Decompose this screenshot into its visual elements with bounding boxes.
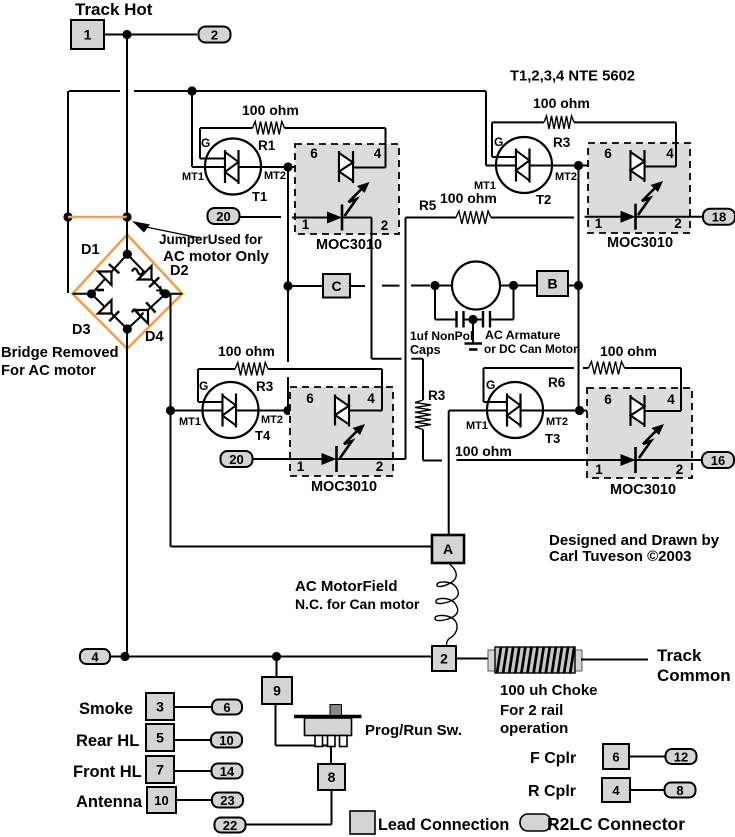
wire U2 pin1 internal [585, 216, 621, 218]
label legend R2LC [547, 814, 685, 834]
wire top rail left segment [69, 90, 120, 92]
switch prog/run [294, 705, 362, 747]
label T2 G [494, 135, 503, 149]
wire R5 left vertical [393, 218, 406, 460]
label U4 MOC3010 [610, 482, 676, 498]
wire box2 to choke [456, 658, 490, 660]
svg-text:4: 4 [367, 391, 375, 406]
wire T1 gate branch [200, 128, 225, 159]
svg-text:9: 9 [273, 683, 281, 699]
wire U3 LED to pin2 [337, 458, 394, 460]
label D1 [81, 242, 100, 258]
label motor field line2 [295, 596, 420, 612]
wire T3 MT2 to optocoupler [521, 410, 631, 412]
wire T2 gate branch [492, 122, 516, 157]
R2LC connector 4 [80, 649, 110, 665]
lead connection box 3 [146, 693, 174, 720]
wire rail to box 9 [276, 657, 278, 678]
R2LC connector 16 [702, 452, 734, 468]
label R6 [548, 375, 566, 390]
svg-text:MOC3010: MOC3010 [316, 237, 382, 253]
wire T4 MT1 branch [171, 410, 223, 412]
label motor line2 [484, 342, 578, 356]
junction T3 MT2 node [575, 406, 584, 415]
svg-text:C: C [331, 278, 341, 294]
wire MT2 vertical to T4 lower [287, 377, 289, 410]
svg-text:D2: D2 [170, 263, 189, 279]
label U2 pin 1 [595, 216, 603, 231]
junction cap center [468, 315, 477, 324]
label U3 pin 2 [376, 459, 384, 474]
label U2 MOC3010 [607, 235, 673, 251]
lead connection box 1 [71, 20, 104, 49]
junction bridge AC top [123, 250, 132, 259]
optocoupler U4 MOC3010 body [587, 388, 692, 478]
svg-text:R3: R3 [553, 135, 571, 150]
svg-text:Designed and Drawn by: Designed and Drawn by [549, 532, 720, 549]
node Track Hot label [75, 0, 153, 19]
wire choke to track common [581, 659, 648, 661]
svg-text:Antenna: Antenna [76, 793, 143, 811]
svg-text:Smoke: Smoke [79, 700, 133, 718]
svg-text:MOC3010: MOC3010 [607, 235, 673, 251]
label NTE note [510, 69, 635, 85]
svg-text:MT2: MT2 [546, 416, 568, 428]
label smoke [79, 700, 133, 718]
junction T1 MT2 node [283, 162, 292, 171]
label caps line2 [410, 343, 441, 357]
label U2 pin 4 [666, 146, 674, 161]
svg-text:1: 1 [302, 217, 310, 232]
svg-text:100 ohm: 100 ohm [455, 443, 512, 459]
label designed by line2 [549, 548, 692, 565]
label choke line1 [500, 682, 598, 699]
wire top rail right segment [134, 90, 486, 92]
label U1 pin 4 [374, 146, 382, 161]
triac T2 [496, 137, 552, 207]
resistor R3 vertical [415, 400, 431, 430]
junction T4 MT1 [166, 406, 175, 415]
svg-text:1uf NonPol: 1uf NonPol [410, 329, 473, 343]
svg-text:1: 1 [595, 462, 603, 477]
label U4 pin 1 [595, 462, 603, 477]
ground [465, 320, 483, 350]
label choke line3 [500, 720, 568, 737]
U4 pin4 wire to R6 [645, 368, 682, 411]
svg-text:Track Hot: Track Hot [75, 0, 153, 19]
label bridge minus [97, 289, 105, 292]
svg-text:100 ohm: 100 ohm [242, 102, 299, 118]
label T2 MT2 [555, 171, 577, 183]
R2LC connector 20 lower [221, 451, 253, 467]
lead connection box 2 [432, 646, 456, 671]
svg-text:10: 10 [219, 733, 233, 748]
wire bridge AC left vertical [67, 91, 69, 293]
wire switch to box 8 [330, 747, 332, 765]
svg-text:4: 4 [667, 392, 675, 407]
label U3 pin 6 [306, 391, 314, 406]
resistor R3 top 100 ohm [492, 116, 676, 129]
wire bridge plus down to T4 MT1 [170, 294, 172, 411]
label D4 [145, 329, 164, 345]
lead connection box 10 [147, 787, 176, 813]
U2 internal triac [631, 150, 645, 182]
label choke line2 [500, 702, 563, 719]
U1 LED diode [327, 205, 342, 231]
label R1 [258, 138, 276, 153]
svg-text:2: 2 [211, 28, 218, 43]
label U1 pin 2 [381, 218, 389, 233]
label 100 ohm pin1 [455, 443, 512, 459]
wire U3 pin1 internal [253, 458, 322, 460]
wire box6 to connector 12 [629, 756, 666, 758]
resistor R6 100 ohm [484, 362, 682, 375]
wire T4 MT2 to optocoupler [236, 410, 335, 412]
junction T2 MT2 node [574, 161, 583, 170]
wire T2 MT1 branch [486, 91, 516, 166]
jumper arrow [132, 221, 200, 238]
svg-text:G: G [201, 136, 210, 150]
wire R3 vertical bottom [423, 430, 442, 461]
svg-text:8: 8 [328, 769, 336, 785]
U3 internal triac [335, 395, 349, 427]
svg-text:Carl Tuveson ©2003: Carl Tuveson ©2003 [549, 548, 692, 565]
lead connection box 5 [146, 724, 174, 751]
R2LC connector 10 [211, 733, 242, 749]
svg-text:F Cplr: F Cplr [530, 750, 576, 767]
label R1 value [242, 102, 299, 118]
label bridge plus [156, 281, 166, 300]
svg-text:Common: Common [657, 666, 731, 685]
wire B to MT2 vertical [568, 285, 579, 287]
diode D4 lower-right [135, 302, 156, 323]
label U3 pin 4 [367, 391, 375, 406]
junction bridge AC bottom [123, 324, 132, 333]
junction B right [574, 281, 583, 290]
label prog/run switch [365, 722, 462, 739]
svg-text:Bridge Removed: Bridge Removed [1, 345, 119, 361]
svg-text:100 ohm: 100 ohm [218, 343, 275, 359]
wire U1 LED to pin2 [342, 218, 372, 359]
capacitor C1 nonpol [457, 311, 464, 328]
label caps line1 [410, 329, 473, 343]
junction rail switch branch [272, 652, 281, 661]
label T3 G [486, 378, 495, 392]
svg-text:2: 2 [676, 462, 684, 477]
wire U4 pin1 internal [457, 459, 621, 461]
wire between caps [464, 319, 484, 321]
wire C to motor with hops [350, 285, 430, 288]
label T1 MT2 [264, 170, 286, 182]
triac T3 [487, 382, 560, 446]
U1 internal triac [339, 151, 353, 183]
svg-text:T4: T4 [255, 428, 271, 443]
wire box9 to switch [276, 704, 332, 746]
wire box3 to connector 6 [174, 706, 212, 708]
label motor field line1 [295, 578, 398, 595]
U3 LED diode [322, 446, 337, 472]
diode D3 lower-left [98, 300, 119, 321]
R2LC connector 8 [665, 783, 696, 799]
label track common line2 [657, 666, 731, 685]
label D2 [170, 263, 189, 279]
svg-text:Track: Track [657, 646, 702, 665]
svg-text:N.C. for Can motor: N.C. for Can motor [295, 596, 420, 612]
svg-text:G: G [494, 135, 503, 149]
label U4 pin 2 [676, 462, 684, 477]
svg-text:Rear HL: Rear HL [76, 732, 139, 750]
jumper wire orange [68, 216, 127, 218]
jumper junction right [122, 212, 131, 221]
label motor line1 [485, 328, 561, 342]
junction motor right [509, 281, 518, 290]
wire U1 pin2 to R3 vertical [372, 359, 424, 400]
label R6 value [600, 343, 657, 359]
svg-text:G: G [199, 379, 208, 393]
R2LC connector 12 [666, 749, 697, 765]
resistor R3 T4 100 ohm [198, 363, 382, 376]
label U3 MOC3010 [311, 479, 377, 495]
label T4 MT2 [261, 414, 283, 426]
wire connector 20 to U1 pin1 [240, 216, 282, 218]
svg-text:4: 4 [374, 146, 382, 161]
label R5 value [440, 190, 497, 206]
svg-text:MT2: MT2 [264, 170, 286, 182]
label T4 G [199, 379, 208, 393]
lead connection box B [537, 271, 568, 296]
wire box5 to connector 10 [174, 739, 211, 741]
label jumper note line2 [163, 248, 269, 265]
U1 pin4 wire to R1 [353, 128, 386, 168]
lead connection box 6 coupler [603, 744, 629, 769]
lead connection box 7 [146, 756, 174, 783]
resistor R5 100 ohm [406, 211, 575, 224]
svg-text:20: 20 [216, 209, 230, 224]
R2LC connector 22 [215, 818, 246, 834]
wire T3 MT1 down to A [448, 411, 450, 536]
svg-text:MT1: MT1 [466, 420, 488, 432]
wire MT2 junction to C [288, 285, 323, 287]
svg-text:Front HL: Front HL [73, 763, 142, 781]
U4 LED diode [621, 447, 636, 473]
label R3 top value [533, 95, 590, 111]
svg-text:B: B [547, 276, 557, 292]
wire U2 LED to connector 18 [636, 216, 704, 218]
label bridge AC bottom tilde [132, 310, 143, 316]
lead connection box C [323, 274, 350, 298]
svg-text:MOC3010: MOC3010 [311, 479, 377, 495]
svg-text:5: 5 [156, 730, 164, 746]
label T3 MT1 [466, 420, 488, 432]
svg-text:16: 16 [711, 453, 725, 468]
label jumper note line1 [159, 232, 263, 247]
junction motor left [430, 281, 439, 290]
svg-text:20: 20 [229, 452, 243, 467]
resistor R1 100 ohm [200, 122, 386, 135]
U2 LED arrow [638, 181, 663, 215]
wire bridge right stub [166, 293, 183, 295]
label R Cplr [528, 783, 576, 800]
svg-text:MOC3010: MOC3010 [610, 482, 676, 498]
wire T2 MT2 to optocoupler [530, 165, 631, 167]
svg-text:100 uh Choke: 100 uh Choke [500, 682, 598, 699]
U3 pin4 wire to R3 [349, 369, 382, 411]
wire bridge top feed [126, 217, 128, 254]
svg-text:R Cplr: R Cplr [528, 783, 576, 800]
svg-text:18: 18 [712, 210, 726, 225]
label U1 MOC3010 [316, 237, 382, 253]
U3 LED arrow [340, 424, 365, 458]
label R3 T4 value [218, 343, 275, 359]
svg-text:1: 1 [84, 27, 92, 43]
svg-text:4: 4 [91, 650, 99, 665]
wire T4 gate branch [198, 369, 223, 402]
svg-text:2: 2 [674, 216, 682, 231]
svg-text:D3: D3 [72, 322, 91, 338]
label T1 G [201, 136, 210, 150]
U4 LED arrow [639, 424, 664, 458]
wire T1 MT2 to optocoupler [239, 166, 340, 168]
label U3 pin 1 [297, 459, 305, 474]
inductor field coil [435, 563, 458, 646]
svg-text:2: 2 [376, 459, 384, 474]
svg-text:14: 14 [220, 764, 235, 779]
wire box8 to connector 22 [245, 790, 332, 825]
svg-text:2: 2 [381, 218, 389, 233]
wire MT2 vertical C to T4 upper [287, 286, 289, 362]
optocoupler U1 MOC3010 body [295, 144, 399, 234]
wire MT2 vertical T1 to C upper [287, 167, 289, 286]
label bridge note line1 [1, 345, 119, 361]
wire track hot vertical [126, 35, 128, 218]
capacitor C2 nonpol [483, 311, 490, 328]
triac T4 [203, 382, 271, 443]
label front hl [73, 763, 142, 781]
lead connection box 9 [262, 677, 292, 704]
wire U4 LED to connector 16 [636, 459, 703, 461]
svg-text:operation: operation [500, 720, 568, 737]
junction C node [283, 281, 292, 290]
R2LC connector 18 [703, 209, 735, 225]
svg-text:Caps: Caps [410, 343, 441, 357]
lead connection box 4 coupler [602, 778, 630, 802]
jumper junction left [63, 212, 72, 221]
wire MT2 vertical T2 to B [578, 166, 580, 286]
label T4 MT1 [179, 416, 201, 428]
diode D1 upper-left [98, 264, 119, 285]
junction bridge minus left [87, 289, 96, 298]
R2LC connector 6 [212, 700, 242, 716]
wire cap right branch [490, 286, 514, 320]
label T2 MT1 [474, 180, 496, 192]
svg-text:100 ohm: 100 ohm [600, 343, 657, 359]
svg-text:R1: R1 [258, 138, 276, 153]
label T1 MT1 [182, 171, 204, 183]
label D3 [72, 322, 91, 338]
U4 internal triac [631, 395, 645, 427]
wire MT2 vertical B to T3 [578, 286, 580, 411]
label U4 pin 6 [604, 392, 612, 407]
svg-text:MT2: MT2 [555, 171, 577, 183]
R2LC connector 2 [199, 27, 231, 43]
svg-text:3: 3 [156, 699, 164, 715]
svg-text:10: 10 [154, 793, 168, 808]
svg-text:or DC Can Motor: or DC Can Motor [484, 342, 578, 356]
wire motor right stub [500, 285, 537, 287]
label F Cplr [530, 750, 576, 767]
U2 pin4 wire to R3 [645, 122, 677, 166]
svg-text:6: 6 [306, 391, 314, 406]
svg-text:+: + [156, 281, 166, 300]
svg-text:AC Armature: AC Armature [485, 328, 561, 342]
wire box7 to connector 14 [174, 770, 212, 772]
U2 LED diode [621, 204, 636, 230]
legend lead connection box [350, 811, 375, 834]
R2LC connector 23 [212, 793, 243, 809]
R2LC connector 20 upper [208, 208, 240, 224]
lead connection box A [432, 535, 464, 563]
junction rail left [120, 652, 129, 661]
wire U1 pin1 internal [292, 217, 327, 219]
label designed by line1 [549, 532, 720, 549]
bridge outline orange diamond [73, 235, 183, 349]
label R5 [419, 198, 437, 213]
svg-text:R2LC Connector: R2LC Connector [547, 814, 685, 834]
svg-text:4: 4 [612, 783, 620, 798]
svg-text:7: 7 [156, 762, 164, 778]
optocoupler U2 MOC3010 body [588, 143, 690, 233]
svg-text:T1,2,3,4 NTE 5602: T1,2,3,4 NTE 5602 [510, 69, 635, 85]
svg-text:A: A [443, 541, 453, 557]
motor M1 [452, 262, 500, 310]
svg-text:Lead Connection: Lead Connection [378, 816, 509, 834]
svg-text:T3: T3 [545, 431, 560, 446]
label U1 pin 6 [310, 146, 318, 161]
label U1 pin 1 [302, 217, 310, 232]
svg-text:R5: R5 [419, 198, 437, 213]
label bridge AC top tilde [132, 269, 143, 275]
svg-text:R6: R6 [548, 375, 566, 390]
label T3 MT2 [546, 416, 568, 428]
svg-text:1: 1 [595, 216, 603, 231]
choke L1 100uh [488, 647, 582, 673]
label R3 vertical [428, 388, 446, 403]
svg-text:6: 6 [612, 750, 619, 765]
label legend lead connection [378, 816, 509, 834]
label R3 top [553, 135, 571, 150]
svg-text:D1: D1 [81, 242, 100, 258]
svg-text:100 ohm: 100 ohm [440, 190, 497, 206]
label track common line1 [657, 646, 702, 665]
junction at track hot [122, 30, 131, 39]
svg-text:1: 1 [297, 459, 305, 474]
junction bridge plus right [161, 289, 170, 298]
wire motor left stub [435, 285, 452, 287]
svg-text:MT1: MT1 [179, 416, 201, 428]
wire cap left branch [435, 286, 457, 320]
svg-text:MT2: MT2 [261, 414, 283, 426]
svg-text:8: 8 [676, 783, 683, 798]
svg-text:2: 2 [440, 651, 448, 667]
svg-text:For AC motor: For AC motor [1, 363, 96, 379]
svg-text:JumperUsed for: JumperUsed for [159, 232, 263, 247]
svg-text:6: 6 [604, 146, 612, 161]
svg-text:22: 22 [223, 818, 237, 833]
label rear hl [76, 732, 139, 750]
svg-text:4: 4 [666, 146, 674, 161]
svg-text:R3: R3 [256, 379, 274, 394]
junction T4 MT2 node [283, 406, 292, 415]
